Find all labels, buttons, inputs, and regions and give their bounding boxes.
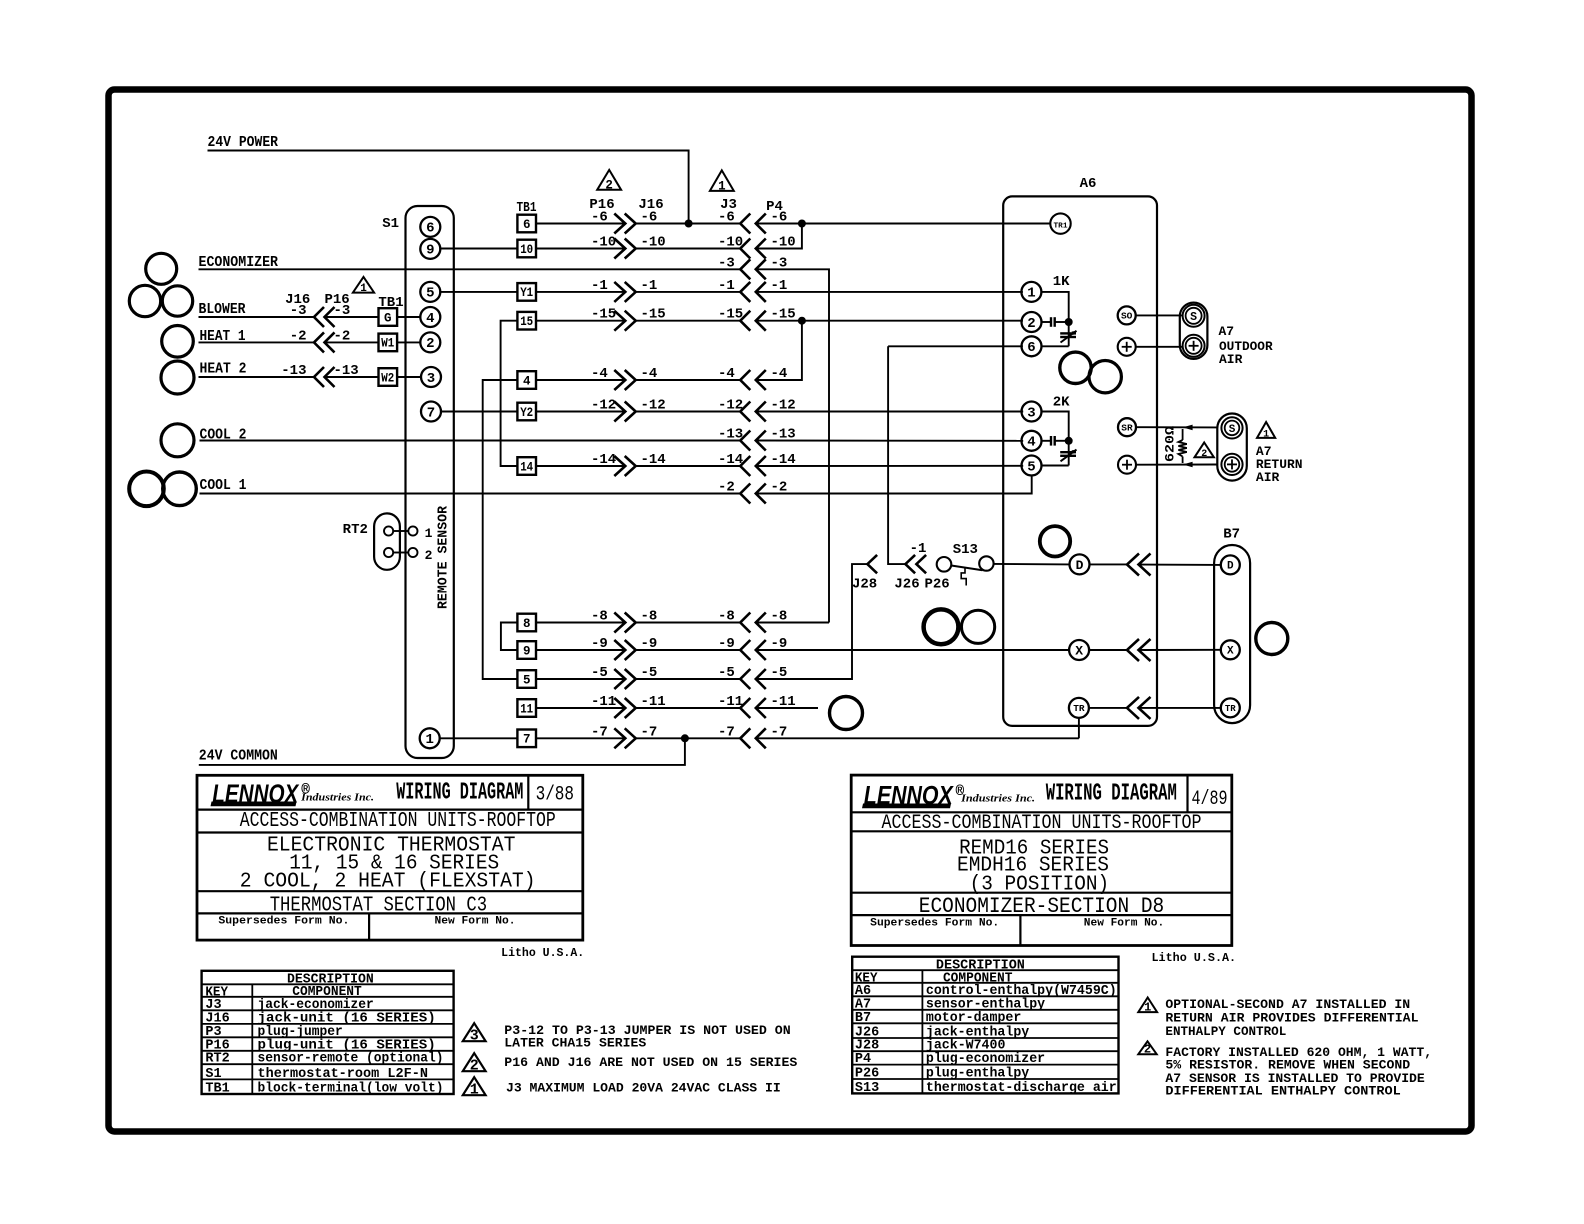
svg-text:X: X (1075, 643, 1083, 658)
svg-text:-4: -4 (641, 366, 658, 382)
svg-text:P16 AND J16 ARE NOT USED ON 15: P16 AND J16 ARE NOT USED ON 15 SERIES (504, 1055, 797, 1070)
svg-text:Litho U.S.A.: Litho U.S.A. (501, 947, 584, 960)
svg-text:-5: -5 (591, 665, 608, 681)
svg-text:B7: B7 (1223, 527, 1240, 543)
svg-text:4: 4 (523, 374, 531, 388)
svg-text:3: 3 (1027, 405, 1035, 421)
svg-text:J26: J26 (894, 577, 919, 593)
svg-text:-3: -3 (290, 303, 307, 319)
svg-text:4: 4 (426, 311, 434, 327)
svg-text:2: 2 (470, 1058, 479, 1075)
svg-text:10: 10 (520, 243, 533, 257)
svg-text:24V POWER: 24V POWER (208, 134, 279, 151)
svg-text:P4: P4 (766, 199, 783, 215)
svg-text:S13: S13 (953, 542, 978, 558)
svg-text:(3 POSITION): (3 POSITION) (970, 873, 1110, 897)
svg-text:-13: -13 (281, 363, 306, 379)
svg-text:Industries Inc.: Industries Inc. (300, 792, 374, 803)
svg-text:5: 5 (1027, 459, 1035, 475)
svg-text:THERMOSTAT SECTION C3: THERMOSTAT SECTION C3 (270, 894, 487, 918)
svg-text:4: 4 (1027, 435, 1035, 451)
svg-text:-1: -1 (718, 278, 735, 294)
svg-text:-7: -7 (591, 724, 608, 740)
svg-text:J28: J28 (852, 577, 877, 593)
svg-text:-3: -3 (334, 303, 351, 319)
svg-text:TR: TR (1225, 704, 1236, 714)
svg-text:1: 1 (425, 732, 433, 748)
svg-text:P26: P26 (925, 577, 950, 593)
svg-text:thermostat-discharge air: thermostat-discharge air (926, 1081, 1117, 1096)
svg-text:P26: P26 (855, 1067, 879, 1082)
svg-text:-8: -8 (718, 609, 735, 625)
svg-text:Industries Inc.: Industries Inc. (960, 794, 1035, 805)
svg-text:1: 1 (425, 526, 433, 541)
svg-text:2K: 2K (1053, 395, 1070, 411)
svg-text:AIR: AIR (1219, 352, 1243, 367)
svg-text:2: 2 (425, 548, 433, 563)
svg-text:RT2: RT2 (205, 1052, 229, 1067)
svg-text:J3 MAXIMUM LOAD 20VA 24VAC CLA: J3 MAXIMUM LOAD 20VA 24VAC CLASS II (506, 1081, 781, 1096)
svg-text:WIRING DIAGRAM: WIRING DIAGRAM (1046, 781, 1177, 808)
svg-text:7: 7 (523, 733, 531, 747)
svg-text:RT2: RT2 (343, 522, 368, 538)
svg-text:DIFFERENTIAL ENTHALPY CONTROL: DIFFERENTIAL ENTHALPY CONTROL (1165, 1083, 1401, 1098)
svg-text:block-terminal(low volt): block-terminal(low volt) (258, 1082, 444, 1097)
svg-text:-1: -1 (591, 278, 608, 294)
svg-text:-12: -12 (591, 398, 616, 414)
svg-text:15: 15 (520, 315, 533, 329)
svg-text:6: 6 (1027, 340, 1035, 356)
svg-text:-8: -8 (591, 609, 608, 625)
svg-text:3: 3 (470, 1028, 479, 1045)
svg-text:New Form No.: New Form No. (1084, 918, 1164, 930)
svg-text:New Form No.: New Form No. (435, 916, 516, 928)
svg-text:7: 7 (427, 405, 435, 421)
svg-text:-15: -15 (641, 307, 666, 323)
svg-text:-10: -10 (591, 235, 616, 251)
svg-text:W2: W2 (381, 371, 394, 385)
svg-text:2: 2 (1201, 449, 1207, 460)
svg-text:-1: -1 (641, 278, 658, 294)
svg-text:-14: -14 (718, 452, 743, 468)
svg-text:620Ω: 620Ω (1163, 426, 1178, 462)
svg-text:-13: -13 (334, 363, 359, 379)
svg-text:SO: SO (1121, 311, 1133, 322)
svg-text:-11: -11 (591, 694, 616, 710)
svg-text:SR: SR (1121, 422, 1133, 433)
svg-text:ACCESS-COMBINATION UNITS-ROOFT: ACCESS-COMBINATION UNITS-ROOFTOP (240, 810, 556, 833)
svg-text:1: 1 (1144, 1001, 1151, 1015)
svg-text:1: 1 (470, 1082, 479, 1099)
svg-text:D: D (1076, 558, 1084, 573)
svg-text:S1: S1 (205, 1067, 221, 1082)
svg-text:-11: -11 (641, 694, 666, 710)
svg-text:5: 5 (523, 673, 531, 687)
svg-text:-10: -10 (718, 235, 743, 251)
svg-text:5: 5 (426, 286, 434, 302)
svg-text:S1: S1 (382, 216, 399, 232)
svg-text:B7: B7 (855, 1011, 871, 1026)
svg-text:-7: -7 (641, 724, 658, 740)
svg-text:-2: -2 (718, 480, 735, 496)
svg-text:11: 11 (520, 702, 533, 716)
svg-text:-9: -9 (641, 636, 658, 652)
svg-text:9: 9 (523, 644, 531, 658)
svg-text:AIR: AIR (1256, 470, 1280, 485)
svg-text:-2: -2 (334, 329, 351, 345)
svg-text:-14: -14 (591, 452, 616, 468)
svg-text:2: 2 (426, 336, 434, 352)
svg-text:LATER CHA15 SERIES: LATER CHA15 SERIES (504, 1035, 646, 1050)
svg-text:-9: -9 (591, 636, 608, 652)
svg-text:1: 1 (1027, 286, 1035, 302)
svg-text:W1: W1 (381, 337, 394, 351)
svg-text:6: 6 (523, 218, 531, 232)
svg-text:6: 6 (426, 221, 434, 237)
svg-text:ECONOMIZER-SECTION D8: ECONOMIZER-SECTION D8 (919, 894, 1164, 919)
svg-text:-4: -4 (591, 366, 608, 382)
svg-text:A7: A7 (1219, 324, 1235, 339)
svg-text:-3: -3 (718, 255, 735, 271)
svg-text:A6: A6 (1080, 176, 1097, 192)
svg-text:-5: -5 (718, 665, 735, 681)
svg-text:D: D (1227, 561, 1234, 573)
svg-text:-10: -10 (641, 235, 666, 251)
svg-text:HEAT 2: HEAT 2 (200, 361, 247, 378)
svg-text:2: 2 (605, 178, 613, 192)
svg-text:ENTHALPY CONTROL: ENTHALPY CONTROL (1165, 1024, 1286, 1039)
svg-text:-12: -12 (641, 398, 666, 414)
svg-text:-9: -9 (718, 636, 735, 652)
svg-text:S13: S13 (855, 1081, 879, 1096)
svg-text:-14: -14 (641, 452, 666, 468)
svg-text:plug-economizer: plug-economizer (926, 1052, 1045, 1067)
svg-text:thermostat-room L2F-N: thermostat-room L2F-N (258, 1067, 429, 1082)
svg-text:Litho U.S.A.: Litho U.S.A. (1152, 952, 1237, 965)
svg-text:sensor-remote (optional): sensor-remote (optional) (258, 1052, 444, 1067)
svg-text:TR: TR (1073, 703, 1085, 714)
svg-text:-12: -12 (718, 398, 743, 414)
svg-text:TB1: TB1 (205, 1082, 229, 1097)
svg-text:8: 8 (523, 617, 531, 631)
svg-text:J3: J3 (720, 197, 737, 213)
svg-text:2: 2 (1144, 1043, 1151, 1057)
svg-text:X: X (1227, 646, 1234, 658)
svg-text:S: S (1190, 311, 1197, 324)
svg-text:4/89: 4/89 (1192, 788, 1228, 811)
svg-text:J16: J16 (638, 197, 663, 213)
svg-text:G: G (384, 311, 392, 325)
svg-text:-15: -15 (591, 307, 616, 323)
svg-text:1: 1 (360, 283, 367, 295)
svg-text:24V COMMON: 24V COMMON (199, 748, 278, 765)
svg-text:plug-enthalpy: plug-enthalpy (926, 1067, 1029, 1082)
svg-text:Supersedes Form No.: Supersedes Form No. (218, 916, 349, 928)
svg-text:1: 1 (718, 179, 726, 193)
svg-text:P16: P16 (589, 197, 614, 213)
svg-text:ACCESS-COMBINATION UNITS-ROOFT: ACCESS-COMBINATION UNITS-ROOFTOP (882, 812, 1202, 835)
svg-text:motor-damper: motor-damper (926, 1011, 1021, 1026)
svg-text:3/88: 3/88 (536, 784, 574, 807)
svg-text:-2: -2 (290, 329, 307, 345)
svg-text:-7: -7 (718, 724, 735, 740)
svg-text:-8: -8 (641, 609, 658, 625)
svg-text:-1: -1 (910, 541, 927, 557)
svg-text:-5: -5 (641, 665, 658, 681)
svg-text:1K: 1K (1053, 274, 1070, 290)
svg-text:2 COOL, 2 HEAT (FLEXSTAT): 2 COOL, 2 HEAT (FLEXSTAT) (240, 870, 536, 894)
svg-text:P4: P4 (855, 1052, 871, 1067)
svg-text:COOL 1: COOL 1 (200, 477, 247, 494)
svg-text:-13: -13 (718, 427, 743, 443)
svg-text:S: S (1229, 424, 1236, 436)
svg-text:Y1: Y1 (520, 286, 533, 300)
svg-text:14: 14 (520, 460, 533, 474)
svg-text:Y2: Y2 (520, 406, 533, 420)
svg-text:Supersedes Form No.: Supersedes Form No. (870, 918, 999, 930)
svg-text:3: 3 (427, 371, 435, 387)
svg-text:-11: -11 (718, 694, 743, 710)
svg-text:9: 9 (426, 243, 434, 259)
svg-text:BLOWER: BLOWER (199, 301, 246, 318)
svg-text:REMOTE SENSOR: REMOTE SENSOR (437, 505, 452, 609)
svg-text:TR1: TR1 (1054, 222, 1069, 230)
svg-text:-15: -15 (718, 307, 743, 323)
svg-text:2: 2 (1027, 316, 1035, 332)
svg-text:1: 1 (1263, 429, 1269, 440)
svg-text:-4: -4 (718, 366, 735, 382)
svg-text:WIRING DIAGRAM: WIRING DIAGRAM (396, 780, 523, 807)
